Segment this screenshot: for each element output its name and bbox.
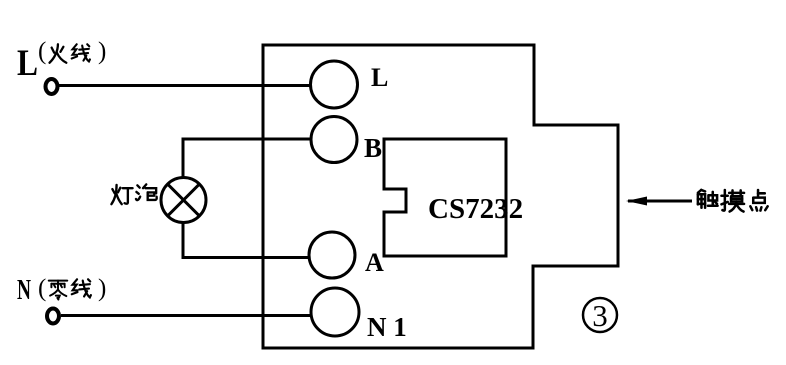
label: 触 character [698,190,718,208]
lamp EL1 cross [168,184,200,216]
label: 泡 character [136,184,157,200]
svg-text:L: L [371,63,388,92]
svg-text:): ) [98,275,106,302]
label: 火 character [50,44,67,62]
lamp EL1 circle [161,178,206,223]
pin pad B circle [311,117,357,163]
svg-text:A: A [365,248,384,277]
svg-text:CS7232: CS7232 [428,193,523,225]
switch body outline [263,45,618,348]
svg-text:L: L [17,43,38,84]
arrow to touch point [628,200,692,203]
IC U1 CS7232 box [384,139,506,256]
terminal: live input circle (L) [46,79,58,94]
label: 零 character [49,281,67,300]
svg-text:3: 3 [592,298,608,333]
label: 线 character [72,44,90,61]
svg-text:N: N [17,274,31,306]
label: 线 character of 零线 [72,279,91,297]
svg-text:): ) [98,38,106,65]
figure number circle (3) [583,298,617,332]
svg-text:(: ( [38,38,46,65]
label: 摸 character [721,190,744,212]
pin pad L circle [311,61,358,108]
wire: live line L to terminal L [59,84,311,87]
label: 点 character [750,190,767,211]
pin pad A circle [309,232,355,278]
svg-text:N 1: N 1 [367,312,407,342]
label: 灯 character [111,185,132,204]
arrowhead [626,197,647,206]
wire: lamp top to terminal B [183,139,311,178]
svg-text:(: ( [38,275,46,302]
terminal: neutral input circle (N) [47,309,59,324]
wire: neutral line N to terminal N1 [61,314,311,317]
wire: lamp bottom to terminal A [183,222,309,258]
svg-text:B: B [364,133,382,163]
pin pad N1 circle [311,288,359,336]
